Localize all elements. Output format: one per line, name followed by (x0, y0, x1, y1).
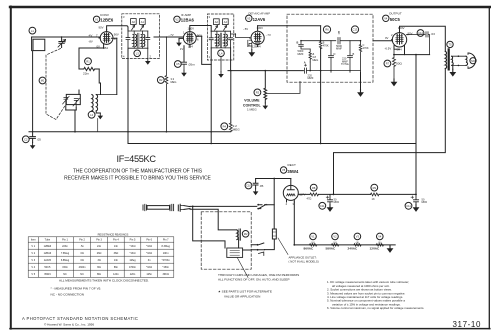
V2 grid label (169, 27, 203, 52)
pointer line from note to clock (238, 258, 249, 278)
ground below T1 pin2 (145, 48, 151, 65)
svg-text:0Ω: 0Ω (80, 252, 83, 255)
svg-text:MMF: MMF (298, 52, 304, 56)
wire T1 pin4 to B- bus (127, 48, 129, 143)
B+ feed from T5 primary (334, 69, 446, 195)
wire AVC to resistor R4 (230, 71, 232, 123)
svg-text:V 5: V 5 (31, 273, 35, 276)
surge resistor R8 (307, 184, 319, 200)
svg-text:1B4: 1B4 (188, 44, 193, 48)
V5 voltage labels (286, 193, 306, 206)
clock timer dashed box (201, 212, 251, 269)
M2 clock marker (242, 231, 249, 238)
svg-text:C10: C10 (246, 184, 251, 188)
svg-text:ALL FUNCTIONS OF OFF, ON, AUTO: ALL FUNCTIONS OF OFF, ON, AUTO, AND SLEE… (218, 278, 290, 282)
T2 ground leg (218, 57, 224, 78)
couplate marker R6 (323, 26, 330, 33)
filter capacitor C11B (405, 194, 427, 209)
junction dots B+ (333, 194, 417, 196)
svg-text:50C5: 50C5 (390, 17, 401, 22)
svg-text:V 3: V 3 (31, 259, 35, 262)
svg-text:B: B (353, 52, 355, 56)
ground (30, 143, 36, 149)
svg-text:RECEIVER MAKES IT POSSIBLE TO: RECEIVER MAKES IT POSSIBLE TO BRING YOU … (64, 175, 211, 181)
M1 gang marker (39, 77, 46, 84)
heater string ground (387, 246, 394, 253)
svg-text:C2: C2 (24, 138, 28, 142)
ground below R7 (391, 79, 398, 86)
ground osc coil (98, 113, 104, 119)
wire osc grid (99, 69, 100, 95)
svg-text:22Kn: 22Kn (62, 245, 68, 248)
svg-text:-4V: -4V (88, 34, 92, 38)
T1 trimmer A6 (131, 19, 137, 30)
antenna loop L1 (29, 27, 45, 50)
svg-text:Pin 3: Pin 3 (96, 239, 102, 242)
wire trimmer to AVC bus (66, 110, 76, 132)
volume control R3 (243, 71, 300, 112)
appliance outlet note (289, 256, 319, 264)
svg-text:6.8Meg: 6.8Meg (61, 259, 70, 262)
resistor A 4.8MEG drop to rail (309, 62, 311, 71)
svg-text:.05: .05 (259, 184, 264, 188)
T1 top and bottom rails (128, 31, 148, 48)
dashed mechanical link (46, 49, 66, 120)
svg-text:*150n: *150n (162, 266, 169, 269)
couplate vertical from plate (320, 26, 322, 42)
svg-text:1Meg: 1Meg (129, 259, 136, 262)
svg-text:MEG: MEG (171, 80, 177, 84)
svg-text:B: B (297, 41, 299, 45)
capacitor C2 .05 to ground (22, 132, 41, 143)
V1 pin voltage labels (88, 26, 119, 50)
svg-text:NC: NC (80, 273, 84, 276)
V4 cathode resistor R7 (384, 49, 402, 79)
svg-text:NC: NC (63, 273, 67, 276)
clock motor coil (237, 229, 241, 248)
tube V5 35W4 rectifier (283, 179, 298, 203)
svg-text:13n: 13n (114, 245, 119, 248)
oscillator coil L2 (88, 95, 117, 119)
svg-text:12AV6: 12AV6 (44, 259, 52, 262)
svg-text:IF=455KC: IF=455KC (117, 154, 157, 164)
svg-text:THROUGH CAMS AND LINKAGES, ONE: THROUGH CAMS AND LINKAGES, ONE FM PERFOR… (218, 273, 299, 277)
svg-text:10Kn: 10Kn (163, 252, 169, 255)
trimmer capacitor C1A (58, 37, 66, 48)
svg-text:V4: V4 (384, 17, 388, 21)
svg-text:Pin 7: Pin 7 (163, 239, 169, 242)
svg-text:36n: 36n (97, 266, 102, 269)
svg-text:.5n: .5n (80, 245, 84, 248)
svg-text:12BE6: 12BE6 (100, 18, 113, 23)
svg-text:-.7V: -.7V (169, 33, 174, 37)
wire V1 plate over the top to T1 (107, 26, 128, 31)
svg-text:.05: .05 (37, 137, 42, 141)
svg-text:M2: M2 (244, 232, 248, 236)
switch output to fusible resistor (267, 205, 274, 229)
svg-text:39KΩ: 39KΩ (163, 273, 169, 276)
ground below volume control (263, 103, 269, 109)
svg-text:(A): (A) (333, 240, 337, 244)
wire T2 pin to B- bus (210, 48, 212, 144)
svg-text:VALUE OR APPLICATION: VALUE OR APPLICATION (224, 295, 260, 299)
svg-text:50C5: 50C5 (44, 266, 51, 269)
PC-1 couplate dashed box (287, 14, 373, 82)
svg-text:V3: V3 (247, 17, 251, 21)
svg-text:22m: 22m (83, 72, 89, 76)
resistor R2 (157, 36, 176, 131)
clock switch block (227, 248, 251, 257)
svg-text:*1KΩ: *1KΩ (130, 245, 136, 248)
capacitor C5 .05 to ground (174, 61, 195, 71)
svg-text:OUTPUT: OUTPUT (389, 12, 402, 16)
coupling capacitor C (301, 30, 361, 50)
svg-text:THE COOPERATION OF THE MANUFAC: THE COOPERATION OF THE MANUFACTURER OF T… (73, 169, 203, 175)
svg-text:R1: R1 (86, 60, 90, 64)
svg-text:MMF: MMF (308, 76, 314, 80)
V4 screen node wire (394, 54, 430, 56)
svg-text:Tube: Tube (45, 239, 51, 242)
on/off switch S1 (257, 204, 266, 210)
svg-text:24VAC: 24VAC (348, 247, 359, 251)
ground below C10 (253, 189, 259, 195)
svg-text:100V: 100V (188, 27, 195, 31)
svg-text:A4: A4 (224, 20, 228, 24)
svg-text:0V: 0V (385, 36, 389, 40)
IF transformer T1 dashed can (122, 14, 160, 59)
svg-text:MMF: MMF (336, 46, 342, 50)
svg-text:12BE6: 12BE6 (44, 245, 52, 248)
svg-text:36Ω: 36Ω (114, 252, 119, 255)
svg-text:35W4: 35W4 (287, 169, 299, 174)
svg-text:CONV: CONV (100, 13, 110, 17)
T1 trimmer A1 (140, 19, 146, 30)
svg-text:50Ω: 50Ω (396, 62, 402, 66)
svg-text:R2: R2 (159, 78, 163, 82)
svg-text:86n: 86n (114, 266, 119, 269)
svg-text:35W4: 35W4 (44, 273, 51, 276)
V4 plate wire to T5 (400, 26, 446, 51)
svg-text:V4: V4 (378, 235, 382, 239)
numbered service notes (327, 280, 424, 310)
parts list note (218, 290, 272, 299)
svg-text:317-10: 317-10 (453, 320, 482, 329)
T2 trimmer A4 (223, 19, 229, 30)
svg-text:150n: 150n (62, 266, 68, 269)
svg-text:86n: 86n (97, 273, 102, 276)
resistance readings table (28, 233, 174, 278)
svg-text:MFD: MFD (422, 200, 428, 204)
svg-text:V 2: V 2 (31, 252, 35, 255)
resistor R1 22K (79, 58, 99, 76)
svg-text:13n: 13n (114, 259, 119, 262)
svg-text:A2: A2 (215, 20, 219, 24)
svg-text:A1: A1 (141, 20, 145, 24)
svg-text:6. Volume control at maximum,: 6. Volume control at maximum, no signal … (327, 306, 424, 310)
ground below C5 (181, 70, 187, 76)
svg-text:© Howard W. Sams & Co., Inc. 1: © Howard W. Sams & Co., Inc. 1956 (44, 323, 94, 327)
svg-text:(A): (A) (356, 240, 360, 244)
appliance outlet contacts (251, 243, 264, 256)
L4 marker (218, 50, 225, 57)
svg-text:C13: C13 (353, 28, 358, 32)
svg-text:12AV6: 12AV6 (253, 17, 266, 22)
T1 secondary coil (141, 31, 145, 48)
svg-text:V 1: V 1 (31, 245, 35, 248)
svg-text:M3: M3 (471, 59, 475, 63)
svg-text:V2: V2 (175, 18, 179, 22)
T1 core (138, 33, 139, 47)
wire left drop to AVC bus (32, 51, 34, 132)
svg-text:47Ω: 47Ω (307, 197, 312, 201)
svg-text:( NOT IN ALL MODELS): ( NOT IN ALL MODELS) (289, 259, 319, 263)
T1 primary tuning capacitor (126, 31, 130, 48)
svg-text:Item: Item (31, 239, 36, 242)
svg-text:*1KΩ: *1KΩ (146, 252, 152, 255)
svg-text:470K: 470K (323, 44, 329, 48)
svg-text:470K: 470K (363, 46, 369, 50)
oscillator trimmer box (63, 90, 81, 110)
svg-text:V1: V1 (95, 18, 99, 22)
V3 cathode ground (248, 40, 255, 57)
T2 secondary coil (224, 31, 228, 48)
output transformer T5 (445, 41, 466, 69)
table footnotes (51, 279, 150, 297)
junction dots on buses (74, 131, 321, 144)
V1 label (93, 13, 113, 23)
capacitor A 220 MMF series (304, 61, 361, 81)
L3 marker (134, 50, 141, 57)
ground below C11B (413, 205, 420, 212)
speaker voice coil (458, 53, 477, 68)
svg-text:Pin 4: Pin 4 (113, 239, 119, 242)
T2 pin numbers (209, 15, 237, 59)
T2 primary tuning capacitor (209, 31, 213, 48)
svg-text:120n: 120n (113, 273, 119, 276)
svg-text:Pin 1: Pin 1 (62, 239, 68, 242)
svg-text:.03: .03 (431, 32, 436, 36)
junction dots couplate (309, 40, 361, 71)
svg-text:MEG: MEG (312, 58, 318, 62)
svg-text:R6: R6 (325, 28, 329, 32)
svg-text:MFD: MFD (334, 200, 340, 204)
svg-text:-.7V: -.7V (266, 33, 271, 37)
tube V1 12BE6 converter (99, 30, 117, 49)
svg-text:90V: 90V (114, 32, 119, 36)
svg-text:3Ω: 3Ω (97, 259, 100, 262)
svg-text:12BA6: 12BA6 (181, 18, 195, 23)
svg-text:NC - NO CONNECTION: NC - NO CONNECTION (51, 293, 85, 297)
AC wire to switch (190, 205, 257, 207)
AVC bus line (29, 131, 231, 133)
svg-text:R8: R8 (312, 186, 316, 190)
heater string wire (294, 244, 395, 246)
svg-text:*1KΩ: *1KΩ (130, 252, 136, 255)
svg-text:-.5V: -.5V (243, 27, 248, 31)
heater V3 (348, 233, 362, 251)
tube V2 12BA6 (183, 30, 198, 48)
svg-text:★ SEE PARTS LIST FOR ALTERNAT: ★ SEE PARTS LIST FOR ALTERNATE (218, 290, 272, 294)
junction at plug (192, 206, 194, 208)
V4 label (383, 12, 402, 23)
svg-text:M1: M1 (41, 79, 45, 83)
T1 pin numbers (123, 15, 152, 59)
wire T1 secondary to V2 grid (154, 36, 183, 38)
svg-text:ALL MEASUREMENTS TAKEN WITH CL: ALL MEASUREMENTS TAKEN WITH CLOCK DISCON… (59, 279, 149, 283)
svg-text:V2: V2 (333, 235, 337, 239)
resistor 470K left (319, 41, 329, 49)
svg-text:R3: R3 (256, 91, 260, 95)
B+ riser (415, 55, 417, 195)
IF frequency note (64, 154, 211, 181)
wire V2 cathode down (183, 46, 185, 62)
svg-text:1V: 1V (180, 47, 184, 51)
svg-text:86VAC: 86VAC (304, 247, 315, 251)
filter choke resistor R9 (371, 184, 379, 201)
svg-text:R7: R7 (386, 62, 390, 66)
screen feed wire (197, 35, 202, 37)
node junction (61, 36, 62, 37)
svg-text:* - MEASURED FROM PIN 7 OF V: * - MEASURED FROM PIN 7 OF V5. (51, 286, 102, 290)
svg-text:IF AMP: IF AMP (181, 13, 191, 17)
svg-text:C11: C11 (406, 204, 411, 208)
svg-text:26Ω: 26Ω (97, 252, 102, 255)
T1 primary coil (133, 31, 137, 48)
line capacitor C10 .05 (245, 179, 263, 189)
svg-text:A6: A6 (132, 20, 136, 24)
svg-text:4300n: 4300n (79, 266, 87, 269)
svg-text:12VAC: 12VAC (370, 247, 381, 251)
svg-text:V3: V3 (356, 235, 360, 239)
T2 secondary tuning capacitor (229, 31, 233, 48)
tube V4 50C5 output (392, 30, 409, 55)
svg-text:DET-AVC-AF AMP: DET-AVC-AF AMP (249, 12, 271, 16)
plug (178, 204, 190, 211)
svg-text:VOLUME: VOLUME (244, 99, 260, 103)
wire coil return to bus (97, 119, 99, 132)
svg-text:12BH4: 12BH4 (252, 45, 261, 49)
resistor 470K right (359, 41, 369, 72)
T2 trimmer A2 (214, 19, 220, 30)
svg-text:4700n: 4700n (129, 266, 137, 269)
svg-text:(A): (A) (378, 240, 382, 244)
V3 grid wire from T2 secondary (231, 34, 250, 38)
svg-text:RESISTANCE READINGS: RESISTANCE READINGS (98, 233, 129, 237)
V5 plate wire to switch (256, 179, 291, 205)
resistor A 4.8 MEG (309, 49, 318, 62)
svg-text:(A): (A) (311, 240, 315, 244)
wire couplate ground leg (357, 72, 364, 97)
svg-text:R9: R9 (373, 186, 377, 190)
B+ line from V5 cathode (298, 193, 416, 195)
heater V1 (304, 233, 317, 251)
T2 primary coil (216, 31, 220, 48)
svg-text:120n: 120n (130, 273, 136, 276)
footer PHOTOFACT line (22, 316, 138, 327)
T2 rails (211, 31, 230, 48)
capacitor D (329, 41, 336, 72)
svg-text:RECT: RECT (288, 163, 297, 167)
svg-text:.05m: .05m (188, 63, 195, 67)
wire couplate output to V4 grid (373, 40, 392, 42)
svg-text:D: D (334, 52, 336, 56)
wire T2 secondary to detector rail (228, 48, 303, 71)
V3 plate wire to couplate (258, 25, 321, 27)
V2 cathode ground (176, 38, 183, 46)
clock linkage note (218, 273, 299, 282)
svg-text:TOTAL: TOTAL (341, 62, 350, 66)
svg-text:*1KΩ: *1KΩ (146, 245, 152, 248)
T2 core (220, 33, 221, 47)
svg-text:V5: V5 (282, 168, 286, 172)
IF transformer T2 dashed can (207, 14, 233, 60)
V5 heater drop (293, 202, 295, 245)
fusible resistor (265, 229, 277, 250)
svg-text:125n: 125n (146, 273, 152, 276)
ground below C11A (327, 205, 334, 212)
V2 label (174, 13, 195, 23)
svg-text:C11: C11 (320, 204, 325, 208)
tube V3 12AV6 (250, 26, 265, 47)
svg-text:58VAC: 58VAC (326, 247, 337, 251)
tone capacitor C14 (407, 30, 435, 55)
line cord (143, 204, 174, 210)
heater V2 (326, 233, 339, 251)
svg-text:A PHOTOFACT STANDARD NOTATI: A PHOTOFACT STANDARD NOTATION SCHEMATIC (22, 316, 138, 321)
svg-text:Pin 6: Pin 6 (146, 239, 152, 242)
filter capacitor C11A (319, 194, 339, 209)
V2 plate wire to T2 (190, 26, 211, 32)
svg-text:7.6Meg: 7.6Meg (61, 252, 70, 255)
wire couplate to B- bus (320, 71, 322, 144)
svg-text:*470Kn: *470Kn (162, 259, 171, 262)
resistor R4 2.2 MEG (221, 123, 240, 132)
svg-text:-8V: -8V (88, 40, 92, 44)
svg-text:MEG: MEG (233, 127, 241, 131)
svg-text:A: A (304, 61, 306, 65)
capacitor B mid (341, 41, 355, 72)
svg-text:R4: R4 (223, 125, 227, 129)
T1 secondary tuning capacitor (146, 31, 150, 48)
svg-text:V1: V1 (311, 235, 315, 239)
svg-text:8.3Meg: 8.3Meg (162, 245, 171, 248)
AC neutral leg down (193, 206, 225, 248)
V4 voltage labels (385, 26, 413, 52)
V5 label (280, 163, 299, 174)
svg-text:V 4: V 4 (31, 266, 35, 269)
svg-text:24n: 24n (97, 245, 102, 248)
couplate marker C13 (351, 26, 358, 33)
svg-text:90V: 90V (99, 26, 104, 30)
V3 label (246, 12, 271, 22)
svg-text:130V: 130V (257, 26, 264, 30)
heater V4 (370, 233, 384, 251)
svg-text:*1KΩ: *1KΩ (146, 266, 152, 269)
svg-text:-6.5V: -6.5V (385, 47, 392, 51)
capacitor B 5000 MMF (297, 41, 311, 56)
svg-text:1 MEG: 1 MEG (247, 107, 257, 111)
svg-text:1K: 1K (372, 197, 375, 201)
V3 voltage labels (243, 26, 271, 49)
wire V1 cathode/osc drops (79, 38, 117, 94)
B- bus line (128, 143, 416, 145)
ground below T5 secondary (449, 65, 456, 76)
svg-text:0Ω: 0Ω (80, 259, 83, 262)
AC second conductor to clock motor (190, 209, 237, 230)
svg-text:Pin 2: Pin 2 (79, 239, 85, 242)
svg-text:Pin 5: Pin 5 (130, 239, 136, 242)
wire antenna to V1 grid (32, 36, 100, 38)
